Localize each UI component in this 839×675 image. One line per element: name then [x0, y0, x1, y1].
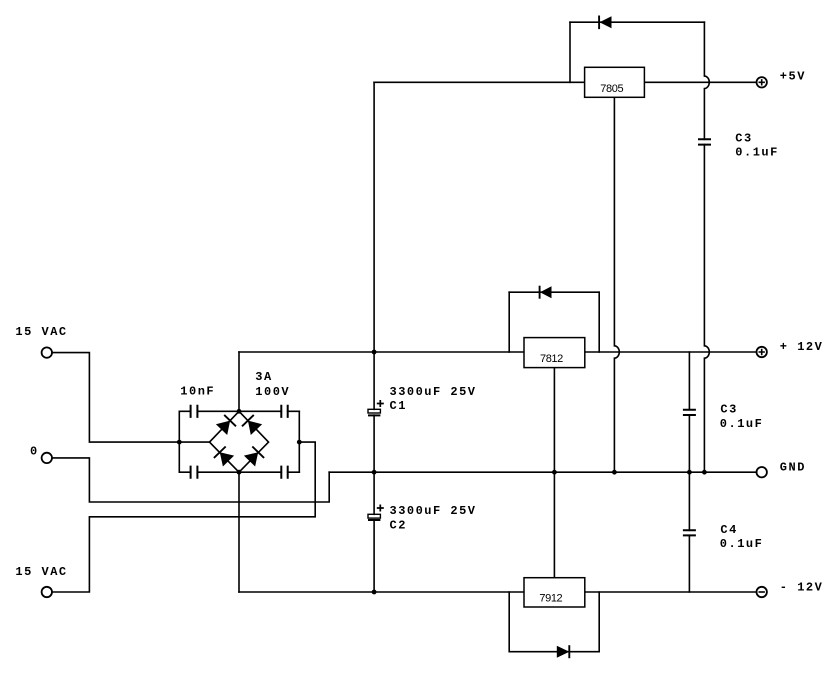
svg-text:C4: C4	[720, 523, 737, 537]
svg-text:0.1uF: 0.1uF	[735, 145, 779, 159]
svg-text:3A: 3A	[255, 370, 272, 384]
svg-text:+5V: +5V	[780, 69, 806, 83]
svg-text:GND: GND	[780, 460, 806, 474]
svg-text:7805: 7805	[600, 83, 623, 95]
svg-text:C1: C1	[390, 399, 407, 413]
svg-text:0: 0	[30, 444, 39, 458]
svg-text:7812: 7812	[540, 353, 563, 365]
svg-text:15 VAC: 15 VAC	[15, 325, 67, 339]
svg-text:100V: 100V	[255, 385, 290, 399]
svg-text:C3: C3	[735, 131, 752, 145]
svg-text:+ 12V: + 12V	[780, 340, 824, 354]
svg-text:3300uF 25V: 3300uF 25V	[390, 504, 477, 518]
svg-text:- 12V: - 12V	[780, 580, 824, 594]
svg-text:3300uF 25V: 3300uF 25V	[390, 385, 477, 399]
svg-text:C3: C3	[720, 402, 737, 416]
svg-text:0.1uF: 0.1uF	[720, 537, 764, 551]
svg-text:0.1uF: 0.1uF	[720, 417, 764, 431]
svg-text:7912: 7912	[539, 593, 562, 605]
svg-text:15 VAC: 15 VAC	[15, 565, 67, 579]
svg-text:C2: C2	[390, 518, 407, 532]
svg-text:10nF: 10nF	[180, 385, 215, 399]
